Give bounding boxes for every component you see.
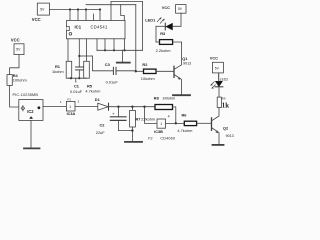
wire IC1 top pin x111 (110, 2, 112, 21)
svg-text:R2: R2 (142, 62, 148, 67)
wire RC bottom rail (68, 77, 87, 79)
node dot R7 ground (131, 129, 133, 131)
wire A y56 (79, 55, 92, 57)
svg-text:VCC: VCC (210, 56, 218, 60)
svg-text:1: 1 (160, 122, 162, 126)
svg-text:5V: 5V (40, 8, 45, 12)
ground G4 C2 R7 (125, 131, 142, 142)
node dot RC rail x71 (70, 77, 72, 79)
wire IC1 bottom pin x86.5 to R5 (86, 39, 88, 62)
svg-text:4: 4 (168, 114, 170, 118)
svg-text:5V: 5V (215, 66, 220, 70)
svg-text:22uF: 22uF (96, 130, 105, 135)
svg-text:VCC: VCC (162, 6, 170, 10)
resistor R9 1k (217, 88, 221, 108)
node dot rail1 x86 (85, 8, 87, 10)
wire IC1 bottom pin x97 (96, 39, 98, 51)
node dot bottomrail x105 (104, 49, 106, 51)
wire IC1 top pin stub x93.5 (93, 14, 95, 21)
svg-text:R8: R8 (154, 96, 160, 101)
wire IC3A out to D1 (75, 106, 98, 108)
node dot wireA x79 (78, 55, 80, 57)
wire IC1 bottom pin x124.5 (124, 39, 126, 51)
svg-text:IC3A: IC3A (67, 112, 76, 116)
svg-text:PIC-10235MB: PIC-10235MB (13, 93, 39, 97)
wire rail2 (86, 4, 136, 6)
svg-text:9013: 9013 (183, 62, 191, 66)
svg-text:R6: R6 (182, 113, 188, 118)
wire IC1 top pin x86 (85, 10, 87, 21)
wire riser to C3 (93, 56, 113, 71)
svg-text:1Mohm: 1Mohm (162, 96, 175, 101)
wire D1 node to R8 (109, 106, 155, 108)
wire C3 right to node B (117, 70, 136, 72)
wire rail2 step down to IC pin (121, 5, 125, 21)
ground G5 Q2 emitter (213, 144, 224, 146)
node dot rail1 x100 (99, 8, 101, 10)
svg-text:VCC: VCC (11, 38, 20, 43)
svg-text:IC1: IC1 (75, 25, 82, 30)
resistor R1 (66, 61, 72, 78)
svg-text:IC3B: IC3B (154, 130, 163, 134)
sensor IC2 PIR module (19, 100, 43, 121)
IC U1 CD4541 body (67, 21, 126, 39)
node dot RC rail x79 (78, 77, 80, 79)
svg-text:C1: C1 (74, 83, 80, 88)
wire IC1 bottom pin x105 (104, 39, 106, 51)
node VCC supply left (10, 44, 24, 75)
transistor Q1 9013 (174, 43, 182, 94)
node VCC supply right (212, 62, 223, 81)
wire IC1 top pin x78 (77, 10, 79, 21)
svg-text:10kohm: 10kohm (141, 76, 155, 81)
resistor R4 (7, 75, 12, 86)
ground G2 Q1 emitter (173, 94, 190, 96)
svg-text:LED1: LED1 (145, 17, 156, 22)
node dot D1 R7 (131, 106, 133, 108)
svg-text:R3: R3 (160, 31, 166, 36)
wire stub below rail (75, 78, 77, 82)
node dot bottomrail x114 (113, 49, 115, 51)
svg-text:2: 2 (78, 99, 80, 103)
wire IC1 bottom pin x79.3 to C1 (78, 39, 80, 67)
resistor R7 (130, 107, 136, 131)
node dot IC3B out (175, 122, 177, 124)
svg-text:0.01uF: 0.01uF (106, 79, 119, 84)
svg-text:F2: F2 (148, 136, 152, 140)
svg-text:R9: R9 (222, 97, 226, 101)
wire node to IC3B input (145, 107, 158, 124)
gate IC3A buffer (66, 101, 75, 111)
svg-text:4.7kohm: 4.7kohm (85, 89, 100, 94)
node dot rail1 x78 (77, 8, 79, 10)
svg-text:F1: F1 (67, 97, 71, 101)
svg-text:1: 1 (69, 105, 71, 109)
svg-text:LED2: LED2 (220, 78, 228, 82)
svg-text:R7: R7 (136, 117, 141, 122)
resistor R2 (136, 69, 174, 73)
node dot bottomrail x124.5 (123, 49, 125, 51)
LED LED2 (211, 73, 223, 88)
node dot rail1 x70 (69, 8, 71, 10)
capacitor C2 electrolytic (110, 107, 132, 131)
svg-text:22kohm: 22kohm (141, 117, 155, 122)
diode D1 (98, 103, 109, 110)
svg-text:4.7kohm: 4.7kohm (177, 128, 192, 133)
svg-text:Q2: Q2 (223, 125, 229, 130)
ground G3 IC2 (24, 120, 40, 148)
svg-text:CD4069: CD4069 (160, 136, 175, 140)
wire rail1 5V top (50, 9, 101, 11)
node VCC supply top-left (37, 3, 49, 15)
svg-text:0.01uF: 0.01uF (70, 89, 83, 94)
svg-text:1: 1 (60, 100, 62, 104)
wire IC1 bottom rail y50.3 (97, 49, 143, 51)
node VCC supply top-right (176, 5, 186, 14)
svg-text:+: + (112, 112, 115, 117)
node dot R2 junction (135, 70, 137, 72)
svg-text:D1: D1 (95, 97, 101, 102)
svg-text:C2: C2 (100, 122, 106, 127)
wire R4 to IC2 (10, 85, 19, 107)
capacitor C1 (76, 67, 84, 78)
wire long vertical C to bottom rail (142, 2, 144, 51)
svg-text:VCC: VCC (32, 17, 41, 22)
LED LED1 (156, 13, 181, 42)
resistor R3 (156, 40, 182, 45)
wire IC3B out to R6 (166, 122, 185, 124)
svg-text:100ohm: 100ohm (13, 78, 27, 83)
resistor R5 (84, 61, 90, 78)
svg-text:9013: 9013 (226, 134, 234, 138)
wire IC1 top pin x70 (69, 10, 71, 21)
capacitor C3 (113, 67, 116, 74)
wire IC1 top pin x100 (99, 10, 101, 21)
svg-text:CD4541: CD4541 (91, 24, 108, 29)
wire IC1 bottom pin x67 to R1 (67, 39, 69, 62)
wire IC2 out to IC3A (43, 106, 66, 108)
resistor R8 (155, 105, 176, 124)
node dot D1 IC3B (143, 106, 145, 108)
svg-text:5V: 5V (178, 7, 183, 11)
svg-text:Q1: Q1 (182, 56, 188, 61)
wire topline (111, 1, 143, 3)
junction dots (69, 8, 177, 131)
node dot D1 C2 (117, 106, 119, 108)
gate IC3B buffer (157, 119, 166, 128)
svg-text:2.2kohm: 2.2kohm (156, 48, 171, 53)
resistor R6 (184, 121, 211, 125)
svg-text:1k: 1k (222, 103, 229, 110)
ground G1 below IC1 (117, 50, 130, 62)
wire long vertical B to R2 node (135, 5, 137, 72)
svg-text:1kohm: 1kohm (52, 69, 64, 74)
transistor Q2 9013 (212, 108, 220, 145)
svg-text:5V: 5V (16, 48, 21, 52)
svg-text:C3: C3 (105, 62, 111, 67)
svg-text:IC2: IC2 (27, 109, 34, 114)
wire IC1 bottom pin x114 (113, 39, 115, 51)
